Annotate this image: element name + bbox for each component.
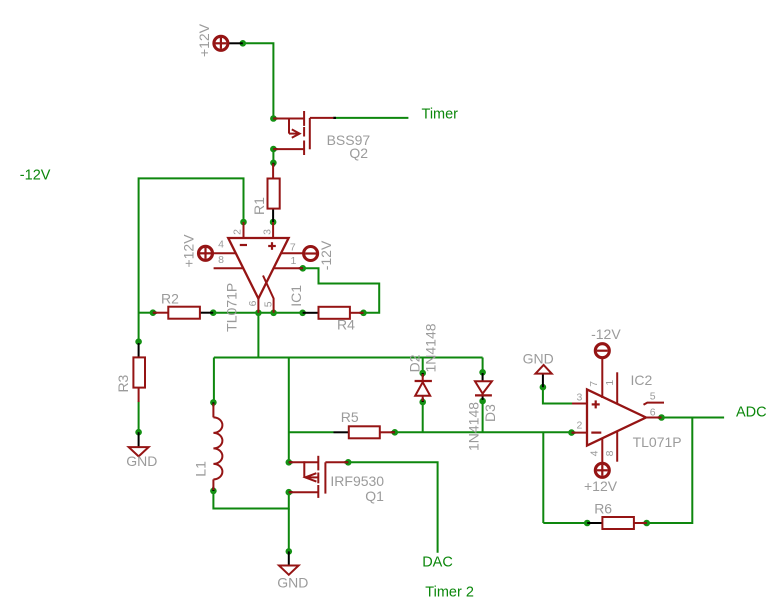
svg-text:R4: R4 [337, 317, 355, 333]
svg-text:L1: L1 [192, 461, 208, 477]
svg-text:1: 1 [291, 255, 297, 267]
svg-text:+12V: +12V [196, 23, 212, 57]
svg-text:3: 3 [262, 229, 274, 235]
svg-text:8: 8 [604, 450, 616, 456]
svg-text:2: 2 [577, 419, 583, 431]
svg-text:1: 1 [604, 380, 616, 386]
svg-text:TL071P: TL071P [633, 434, 682, 450]
svg-text:-12V: -12V [20, 168, 51, 184]
svg-text:1N4148: 1N4148 [423, 323, 439, 372]
svg-text:GND: GND [277, 575, 308, 591]
svg-text:6: 6 [247, 300, 259, 306]
svg-text:7: 7 [290, 241, 296, 253]
svg-text:Q2: Q2 [349, 145, 368, 161]
svg-text:4: 4 [218, 239, 224, 251]
svg-text:R3: R3 [115, 374, 131, 392]
svg-text:IC2: IC2 [631, 372, 653, 388]
svg-text:2: 2 [232, 229, 244, 235]
svg-text:Q1: Q1 [365, 488, 384, 504]
svg-text:3: 3 [577, 392, 583, 404]
svg-text:TL071P: TL071P [224, 283, 240, 332]
svg-text:GND: GND [126, 453, 157, 469]
svg-text:DAC: DAC [422, 554, 453, 570]
svg-text:IRF9530: IRF9530 [330, 473, 384, 489]
svg-text:D2: D2 [406, 354, 422, 372]
svg-text:+12V: +12V [181, 234, 197, 268]
svg-text:IC1: IC1 [288, 285, 304, 307]
svg-text:8: 8 [218, 254, 224, 266]
svg-text:5: 5 [650, 391, 656, 403]
svg-text:7: 7 [588, 381, 600, 387]
svg-text:-12V: -12V [591, 326, 621, 342]
svg-text:Timer 2: Timer 2 [425, 585, 474, 601]
svg-text:+12V: +12V [584, 478, 618, 494]
svg-text:ADC: ADC [736, 404, 767, 420]
svg-text:4: 4 [589, 450, 601, 456]
svg-text:R2: R2 [161, 290, 179, 306]
svg-text:-12V: -12V [318, 240, 334, 270]
svg-text:GND: GND [523, 350, 554, 366]
svg-text:D3: D3 [482, 404, 498, 422]
svg-text:R1: R1 [251, 197, 267, 215]
svg-text:R6: R6 [594, 501, 612, 517]
svg-text:1N4148: 1N4148 [465, 402, 481, 451]
svg-text:5: 5 [263, 301, 275, 307]
svg-text:R5: R5 [341, 409, 359, 425]
svg-text:Timer: Timer [422, 107, 459, 123]
svg-text:6: 6 [650, 406, 656, 418]
